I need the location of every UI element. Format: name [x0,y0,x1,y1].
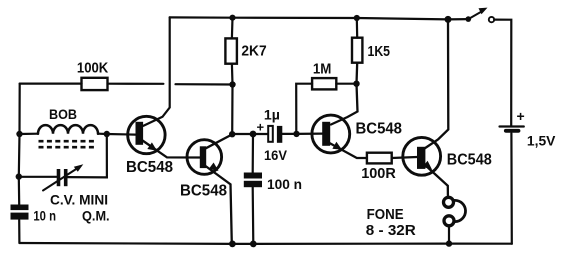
node CV left [16,173,22,179]
svg-text:+: + [517,108,525,124]
transistor Q2 circle [187,140,222,175]
node top Q4 collector [445,16,452,23]
wire 100K left lead [20,82,82,84]
node Q2 collector [229,131,235,137]
transistor Q1 circle [128,116,165,153]
svg-text:100K: 100K [77,61,109,77]
wire CV right lead [68,134,107,177]
wire 1M vertical [296,84,312,134]
switch S1 lever [468,11,482,19]
ferrite core dashed line 1 [39,140,97,143]
node 100n bottom [250,241,257,248]
svg-text:BC548: BC548 [356,120,403,137]
node top 2K7 [229,15,235,21]
capacitor C3 100n plate bottom [244,181,262,187]
svg-text:BC548: BC548 [180,183,227,200]
node jack bottom [446,240,452,246]
wire 1K5 top lead [356,18,359,38]
wire Q1 collector vertical [144,17,170,125]
node Q2 emitter bottom [229,241,236,248]
transistor Q1 emitter [143,141,200,158]
variable capacitor CV plate left [57,169,61,186]
wire 100n vertical [252,134,255,244]
transistor Q4 collector [425,19,449,148]
inductor L1 BOB coil [38,125,98,134]
wire jack to bottom rail [448,226,450,244]
transistor Q2 base bar [200,146,206,168]
svg-text:1,5V: 1,5V [527,133,556,149]
wire 100R right lead / Q4 base [392,157,417,158]
svg-text:100 n: 100 n [267,176,302,192]
svg-text:10 n: 10 n [33,208,56,224]
capacitor C3 100n plate top [244,173,262,179]
wire 1M right lead [336,83,356,85]
variable capacitor CV plate right [64,169,68,186]
transistor Q4 base bar [417,147,425,169]
svg-text:Q.M.: Q.M. [82,208,110,224]
wire CV left lead [19,176,57,178]
phone jack curve [455,200,466,221]
wire gap crossing to 2K7 node [176,83,233,86]
svg-text:C.V. MINI: C.V. MINI [50,192,108,208]
resistor R1 100K body [82,78,108,90]
capacitor C2 1u plate right [277,126,282,143]
node 100n top [250,131,257,138]
transistor Q2 collector [205,134,232,148]
node Q3 base [293,131,299,137]
transistor Q3 emitter [329,143,367,158]
capacitor C1 10n plate top [11,205,29,211]
resistor R2 2K7 body [225,38,237,63]
wire node to C2 [253,133,268,135]
phone jack ring bottom [444,216,454,226]
wire coil left lead [20,133,39,136]
transistor Q4 circle [403,137,441,175]
svg-text:8 - 32R: 8 - 32R [366,223,417,239]
battery B1 short plate [506,129,519,133]
capacitor C1 10n plate bottom [11,213,29,220]
svg-text:100R: 100R [361,166,396,182]
wire left rail [18,84,21,243]
node top 1K5 [354,15,360,21]
svg-text:16V: 16V [264,147,288,163]
node coil right [104,131,110,137]
wire Q3 base lead [297,133,323,135]
svg-text:1M: 1M [313,61,332,77]
phone jack ring top [444,197,454,207]
transistor Q1 base bar [136,122,144,145]
wire 100K right lead to gap [108,83,164,85]
node coil left [16,131,22,137]
svg-text:FONE: FONE [367,207,404,223]
node 100K/2K7 junction [229,81,235,87]
wire 1K5 bottom lead to Q3 collector [331,63,358,125]
svg-text:BOB: BOB [49,106,77,122]
switch S1 pivot dot [466,16,472,22]
switch S1 open contact [489,17,494,22]
ferrite core dashed line 2 [39,146,97,149]
resistor R4 1K5 body [352,38,362,63]
wire Q1 base lead [107,133,135,136]
transistor Q3 circle [312,115,350,153]
transistor Q4 emitter [425,165,448,196]
wire 2K7 top lead [231,18,234,39]
svg-text:2K7: 2K7 [241,42,266,59]
wire battery to bottom rail [510,133,513,244]
svg-text:+: + [257,120,265,135]
svg-text:BC548: BC548 [126,159,173,176]
transistor Q3 base bar [322,122,330,146]
resistor R5 100R body [367,153,392,164]
capacitor C2 1u plate left [268,126,273,142]
wire bottom rail [20,242,512,245]
resistor R3 1M body [312,78,336,89]
transistor Q2 emitter [205,166,232,244]
svg-text:1µ: 1µ [264,107,280,123]
wire collector node to 100n node [232,133,253,135]
wire C2 to Q3 base node [282,133,296,135]
svg-text:BC548: BC548 [447,152,492,169]
node 1K5 bottom [353,81,359,87]
wire switch to battery [494,20,511,127]
wire 2K7 bottom lead to collector node [231,64,234,134]
wire coil right lead [98,133,107,136]
variable capacitor CV arrow [43,168,79,191]
svg-text:1K5: 1K5 [368,43,391,60]
battery B1 long plate [500,125,524,127]
wire top rail [170,17,469,19]
